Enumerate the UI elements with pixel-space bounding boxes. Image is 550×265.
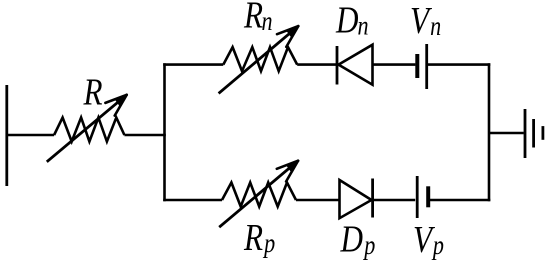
svg-text:p: p [362,231,375,261]
label R [83,71,103,114]
battery Vp positive plate (long) [416,176,419,218]
svg-text:D: D [335,0,358,41]
svg-text:n: n [430,12,441,42]
svg-text:n: n [357,12,368,42]
node B: right junction vertical wire [488,63,491,201]
arrowhead wedge of Rn [286,26,298,38]
arrow upper barb of Rn [277,26,298,34]
svg-text:R: R [243,0,263,36]
arrow shaft of Rn [219,29,296,94]
diode Dp cathode bar [371,179,374,218]
battery Vn positive plate (long) [425,44,428,89]
arrow lower barb of Rn [286,26,298,47]
label Dn [335,0,368,41]
resistor Rn (variable, zigzag) [223,47,297,71]
wire: left terminal to resistor R [7,134,54,137]
arrow lower barb of R [115,95,127,116]
svg-text:D: D [340,218,363,261]
ground short bar [542,126,545,140]
wire: battery Vp to node B [428,199,490,202]
arrow shaft of Rp [219,163,295,227]
terminal bar (left input) [5,85,8,186]
label Rp [243,216,275,259]
ground middle bar [532,119,535,148]
arrow upper barb of R [105,95,126,103]
wire: node B to ground [489,132,524,135]
wire: Rn to diode Dn [297,63,337,66]
wire: battery Vn to node B [427,63,491,66]
svg-text:R: R [243,216,263,259]
wire: node A to Rn [163,63,223,66]
arrow lower barb of Rp [286,161,298,182]
label Vn [410,0,441,42]
wire: resistor R to node A [124,134,165,137]
node A: left junction vertical wire [163,63,166,201]
diode Dn triangle [339,45,373,85]
arrowhead wedge of R [115,95,127,107]
wire: Rp to diode Dp [296,199,341,202]
label Dp [340,218,376,261]
resistor Rp (variable, zigzag) [222,183,296,207]
wire: diode Dn to battery Vn [373,63,416,66]
resistor R (variable, zigzag) [54,118,124,142]
wire: diode Dp to battery Vp [373,199,416,202]
diode Dn cathode bar [336,46,339,85]
battery Vp negative plate (short thick) [426,186,430,207]
svg-text:R: R [83,71,103,114]
label Rn [243,0,272,36]
svg-text:n: n [261,7,272,37]
diode Dp triangle [340,180,372,218]
arrow upper barb of Rp [277,161,298,169]
battery Vn negative plate (short thick) [415,54,419,78]
svg-text:p: p [262,229,275,259]
arrow shaft of R [47,97,124,161]
label Vp [413,218,444,261]
wire: node A to Rp [163,199,222,202]
svg-text:p: p [431,231,444,261]
ground long bar [524,109,527,158]
arrowhead wedge of Rp [286,161,298,173]
svg-text:V: V [410,0,432,42]
